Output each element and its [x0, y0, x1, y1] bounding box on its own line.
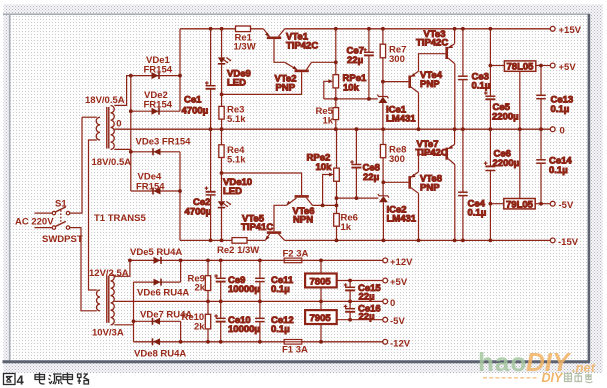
potentiometer RPe1 — [324, 29, 367, 101]
regulator 79L05 — [490, 129, 550, 210]
wire 0V rail — [114, 127, 550, 131]
svg-text:2200µ: 2200µ — [493, 158, 520, 169]
wire switch to T2 primary bottom — [70, 228, 97, 311]
resistor Re9 — [188, 260, 211, 301]
diode VDe3 — [131, 137, 191, 156]
wire +12V rail — [128, 259, 383, 263]
svg-text:Re2 1/3W: Re2 1/3W — [217, 245, 259, 256]
svg-text:7905: 7905 — [310, 313, 332, 324]
svg-text:2200µ: 2200µ — [492, 112, 519, 123]
resistor Re6 — [334, 213, 358, 241]
svg-text:22µ: 22µ — [359, 292, 375, 303]
svg-text:0.1µ: 0.1µ — [551, 104, 570, 115]
wire diode anode bus — [129, 74, 133, 191]
transistor VTe5 — [241, 205, 287, 240]
svg-text:VDe6 RU4A: VDe6 RU4A — [137, 288, 189, 299]
regulator 78L05 — [490, 61, 550, 129]
capacitor Ce12 — [255, 301, 294, 341]
svg-text:0: 0 — [116, 119, 121, 130]
transistor VTe8 — [383, 154, 445, 240]
svg-text:0.1µ: 0.1µ — [549, 165, 568, 176]
transistor VTe7 — [416, 129, 455, 240]
wire VDe5 VDe6 cathode join — [180, 260, 182, 282]
transistor VTe6 — [222, 173, 337, 226]
svg-text:300: 300 — [389, 54, 405, 65]
svg-text:0.1µ: 0.1µ — [271, 284, 290, 295]
fuse F1 — [282, 340, 308, 356]
wire secondary2 bottom bus — [114, 282, 135, 342]
svg-text:-5V: -5V — [559, 200, 574, 211]
capacitor Ce10 — [214, 301, 260, 341]
svg-text:5.1k: 5.1k — [227, 114, 246, 125]
regulator 7905 — [305, 301, 383, 341]
transistor VTe1 — [263, 29, 318, 63]
svg-text:PNP: PNP — [420, 79, 440, 90]
wire REF divider positive — [324, 97, 378, 101]
svg-text:F2 3A: F2 3A — [283, 249, 309, 260]
LED VDe10 — [218, 173, 252, 240]
svg-text:LM431: LM431 — [386, 114, 416, 125]
diode VDe6 — [134, 279, 190, 299]
node +12V — [383, 257, 413, 268]
resistor Re8 — [380, 129, 406, 196]
svg-text:18V/0.5A: 18V/0.5A — [92, 157, 132, 168]
svg-text:AC 220V: AC 220V — [15, 217, 54, 228]
LED VDe9 — [218, 29, 251, 97]
svg-text:300: 300 — [389, 154, 405, 165]
capacitor Ce13 — [536, 64, 573, 130]
svg-text:10000µ: 10000µ — [228, 284, 260, 295]
svg-text:TIP42C: TIP42C — [416, 38, 448, 49]
svg-text:12V/2.5A: 12V/2.5A — [89, 268, 129, 279]
switch S1 — [52, 207, 70, 229]
capacitor Ce9 — [214, 260, 260, 301]
node +5V — [550, 62, 576, 73]
wire REF divider negative — [337, 196, 379, 200]
node -5V — [550, 200, 574, 211]
svg-text:0: 0 — [560, 126, 565, 137]
svg-text:22µ: 22µ — [347, 55, 363, 66]
shunt regulator ICe2 — [378, 194, 417, 241]
svg-text:.net: .net — [572, 360, 596, 375]
caption figure 4 power supply circuit — [4, 373, 90, 385]
diode VDe5 — [130, 247, 182, 264]
svg-text:-5V: -5V — [390, 316, 405, 327]
regulator 7805 — [305, 260, 383, 301]
wire AC line top — [35, 212, 53, 214]
wire rectifier positive output — [178, 29, 182, 111]
svg-text:F1 3A: F1 3A — [282, 345, 308, 356]
svg-text:1k: 1k — [341, 222, 352, 233]
svg-text:FR154: FR154 — [144, 100, 173, 111]
svg-text:TIP41C: TIP41C — [241, 222, 273, 233]
transformer T1 upper winding — [82, 105, 114, 149]
svg-text:4: 4 — [17, 373, 25, 388]
svg-text:VDe3 FR154: VDe3 FR154 — [136, 137, 192, 148]
svg-text:10000µ: 10000µ — [228, 324, 260, 335]
node -15V — [550, 237, 578, 248]
wire secondary bottom to bus — [114, 149, 131, 151]
svg-text:PNP: PNP — [276, 83, 296, 94]
wire rectifier negative output — [178, 152, 182, 241]
svg-text:78L05: 78L05 — [507, 62, 535, 73]
svg-text:2k: 2k — [195, 283, 206, 294]
svg-text:S1: S1 — [55, 199, 67, 210]
wire +15V rail — [180, 27, 550, 31]
diode VDe2 — [131, 90, 180, 115]
diode VDe4 — [131, 172, 180, 195]
svg-text:VDe8 RU4A: VDe8 RU4A — [134, 349, 186, 360]
svg-text:-12V: -12V — [390, 339, 411, 350]
node +5V output — [383, 277, 408, 288]
svg-text:-15V: -15V — [558, 237, 579, 248]
capacitor Ce7 — [347, 29, 374, 99]
svg-text:Ce1: Ce1 — [184, 95, 202, 106]
svg-text:PNP: PNP — [420, 183, 440, 194]
diode VDe8 — [134, 338, 186, 359]
svg-text:0.1µ: 0.1µ — [271, 324, 290, 335]
capacitor Ce6 — [484, 129, 519, 240]
capacitor Ce15 — [344, 281, 382, 303]
transistor VTe3 — [416, 29, 455, 129]
capacitor Ce2 — [185, 129, 216, 240]
svg-text:+5V: +5V — [390, 277, 408, 288]
capacitor Ce11 — [255, 260, 294, 301]
svg-text:FR154: FR154 — [144, 65, 173, 76]
svg-text:hao: hao — [478, 347, 527, 377]
resistor Re7 — [380, 29, 406, 97]
svg-text:NPN: NPN — [293, 215, 313, 226]
potentiometer RPe2 — [307, 129, 340, 213]
wire primary return leg — [89, 140, 97, 290]
diode VDe7 — [134, 310, 193, 325]
svg-text:5.1k: 5.1k — [227, 155, 246, 166]
transistor VTe2 — [222, 62, 336, 94]
svg-text:TIP42C: TIP42C — [416, 148, 448, 159]
svg-text:+12V: +12V — [390, 257, 413, 268]
wire -15V rail — [180, 239, 550, 243]
svg-text:22µ: 22µ — [359, 312, 375, 323]
capacitor Ce1 — [182, 29, 216, 129]
svg-text:0: 0 — [390, 298, 395, 309]
wire -12V rail — [134, 340, 383, 344]
fuse F2 — [283, 249, 309, 263]
svg-text:+15V: +15V — [559, 25, 582, 36]
watermark haoDIY.net — [478, 347, 596, 385]
svg-text:VDe5 RU4A: VDe5 RU4A — [130, 247, 182, 258]
svg-text:LED: LED — [223, 186, 242, 197]
resistor Re3 — [219, 94, 246, 129]
resistor Re2 — [217, 238, 259, 256]
svg-text:4700µ: 4700µ — [185, 207, 212, 218]
svg-text:LED: LED — [227, 78, 246, 89]
node -5V output — [383, 316, 406, 327]
svg-text:18V/0.5A: 18V/0.5A — [85, 95, 125, 106]
svg-text:4700µ: 4700µ — [182, 106, 209, 117]
svg-text:FR154: FR154 — [136, 182, 165, 193]
node 0 output — [383, 298, 395, 309]
svg-text:SWDPST: SWDPST — [42, 234, 83, 245]
svg-text:22µ: 22µ — [363, 172, 379, 183]
resistor Re5 — [316, 99, 339, 129]
node 0 — [550, 126, 564, 137]
svg-text:TIP42C: TIP42C — [286, 41, 318, 52]
wire secondary top to diode bus — [114, 76, 131, 106]
wire switch to T1 primary top — [70, 117, 82, 213]
wire secondary2 top jog — [114, 260, 130, 276]
svg-text:T1 TRANS5: T1 TRANS5 — [94, 213, 146, 224]
wire VDe7 VDe8 anode join — [180, 321, 182, 342]
wire 0V rail bottom section — [114, 300, 382, 304]
capacitor Ce16 — [344, 301, 381, 322]
svg-text:1k: 1k — [323, 116, 334, 127]
node -12V — [383, 339, 411, 350]
transformer T1 lower winding — [97, 274, 115, 325]
svg-text:7805: 7805 — [310, 277, 332, 288]
svg-text:10k: 10k — [343, 83, 360, 94]
svg-text:2k: 2k — [194, 322, 205, 333]
resistor Re1 — [234, 26, 256, 53]
wire AC line bottom — [35, 227, 53, 229]
diode VDe1 — [131, 55, 180, 79]
svg-text:DIY: DIY — [542, 371, 565, 385]
capacitor Ce3 — [458, 29, 490, 129]
svg-text:0.1µ: 0.1µ — [472, 81, 491, 92]
svg-text:10V/3A: 10V/3A — [92, 328, 124, 339]
svg-text:79L05: 79L05 — [506, 200, 534, 211]
capacitor Ce8 — [350, 129, 380, 198]
transistor VTe4 — [383, 54, 446, 130]
svg-text:1/3W: 1/3W — [234, 42, 256, 53]
svg-text:0.1µ: 0.1µ — [468, 208, 487, 219]
node +15V — [550, 25, 581, 36]
svg-text:+5V: +5V — [559, 62, 577, 73]
capacitor Ce4 — [458, 129, 486, 240]
capacitor Ce5 — [484, 29, 519, 129]
svg-text:LM431: LM431 — [387, 214, 417, 225]
resistor Re4 — [219, 129, 246, 175]
shunt regulator ICe1 — [377, 95, 416, 130]
capacitor Ce14 — [536, 129, 572, 205]
resistor Re10 — [182, 301, 211, 341]
svg-text:10k: 10k — [316, 162, 333, 173]
